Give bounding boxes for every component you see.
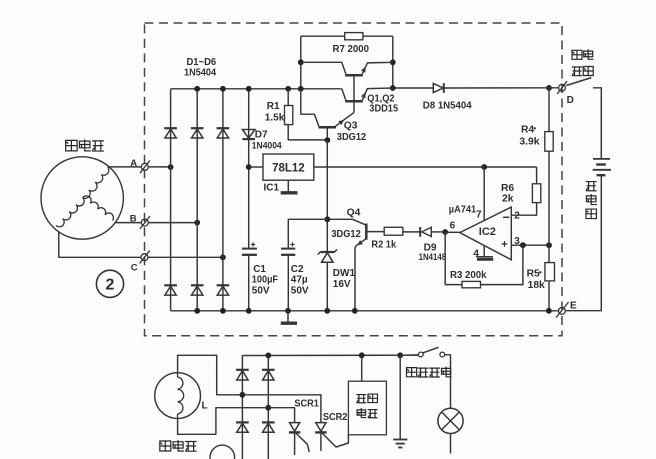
svg-text:IC2: IC2 bbox=[479, 226, 496, 238]
wire B to rectifier column 2 bbox=[148, 222, 197, 224]
lighting switch 照明开关 bbox=[418, 347, 444, 357]
junction col4 IC1 input bbox=[246, 164, 252, 170]
diode D9 1N4148 bbox=[420, 227, 445, 237]
SCR2 gate bbox=[323, 434, 349, 448]
svg-text:A: A bbox=[130, 158, 137, 169]
wire R6 top bbox=[536, 167, 538, 184]
wire R7 right vertical bbox=[392, 36, 394, 88]
junction Q2 collector bbox=[298, 86, 304, 92]
label µA741 bbox=[449, 204, 477, 215]
junction Q1 collector bbox=[298, 59, 304, 65]
svg-text:C1: C1 bbox=[253, 264, 266, 275]
connector terminal D bbox=[557, 81, 567, 94]
diode D5 (bottom row) bbox=[191, 285, 204, 295]
resistor R6 bbox=[532, 184, 540, 203]
svg-text:D8 1N5404: D8 1N5404 bbox=[423, 100, 472, 111]
label Q4 bbox=[347, 208, 361, 219]
label R7 2000 bbox=[333, 43, 370, 54]
svg-text:3DG12: 3DG12 bbox=[337, 132, 367, 144]
wire pin3 node to R5 bbox=[548, 245, 550, 262]
wire pin 4 ground stub bbox=[483, 245, 485, 256]
junction top rail bbox=[194, 86, 200, 92]
label D8 1N5404 bbox=[423, 100, 472, 111]
junction C2 bottom bbox=[285, 308, 291, 314]
junction lower rail ground bbox=[397, 352, 403, 358]
wire A to rectifier column 1 bbox=[148, 166, 170, 168]
label IC1 bbox=[264, 182, 280, 193]
wire to chassis ground bbox=[399, 355, 401, 439]
chassis ground symbol bbox=[393, 440, 407, 448]
diode D7 1N4004 bbox=[242, 130, 255, 140]
wire R7 top rail bbox=[301, 35, 393, 37]
label 电源开关 (power switch) bbox=[572, 49, 594, 75]
svg-text:2k: 2k bbox=[502, 194, 514, 205]
label R5 18k bbox=[527, 268, 545, 291]
wire R2 to D9 bbox=[403, 231, 420, 233]
label C2 47u 50V bbox=[291, 264, 309, 297]
label D7 bbox=[255, 130, 268, 141]
svg-text:3DG12: 3DG12 bbox=[331, 228, 361, 240]
battery 蓄电池 bbox=[593, 159, 611, 175]
wire B' to SCR1 bbox=[268, 408, 294, 423]
label R6 2k bbox=[501, 183, 514, 204]
junction divider top bbox=[546, 85, 552, 91]
wire R5 bottom bbox=[548, 281, 550, 311]
svg-text:3.9k: 3.9k bbox=[519, 137, 539, 148]
wire node B bbox=[115, 222, 142, 224]
label 控制电路 (control circuit) bbox=[356, 394, 377, 418]
label R2 1k bbox=[371, 239, 396, 251]
label A bbox=[130, 158, 137, 169]
diode lower bottom row B' bbox=[262, 422, 275, 432]
label 1N4004 bbox=[252, 140, 282, 151]
svg-text:7: 7 bbox=[476, 210, 482, 221]
label C1 100uF 50V bbox=[252, 264, 278, 297]
svg-text:50V: 50V bbox=[252, 285, 270, 296]
wire node A bbox=[109, 166, 142, 168]
wire R1 bottom to Q3 base node bbox=[288, 125, 327, 140]
diode D4 (bottom row) bbox=[164, 285, 177, 295]
label C bbox=[131, 262, 138, 273]
diode D8 1N5404 bbox=[433, 83, 444, 93]
svg-text:IC1: IC1 bbox=[264, 182, 280, 193]
diode lower bottom row A' bbox=[236, 422, 249, 432]
capacitor C1 bbox=[242, 242, 257, 255]
svg-text:R2 1k: R2 1k bbox=[371, 239, 396, 251]
cropped circle bottom bbox=[210, 445, 235, 459]
magneto M1 circle bbox=[41, 157, 123, 239]
label B bbox=[130, 214, 137, 225]
junction pin3-divider bbox=[546, 242, 552, 248]
diode D2 (top row) bbox=[191, 128, 204, 138]
minus sign pin2 bbox=[503, 216, 509, 218]
transistor Q4 emitter bbox=[355, 239, 366, 311]
connector terminal A bbox=[140, 160, 150, 173]
label DW1 16V bbox=[333, 268, 356, 290]
label pin 3 bbox=[514, 236, 520, 247]
wire node C bbox=[59, 232, 141, 257]
wire below lamp bbox=[450, 434, 452, 454]
svg-text:L: L bbox=[202, 400, 208, 411]
junction bottom rail bbox=[220, 308, 226, 314]
wire R1 top lead bbox=[287, 89, 289, 106]
diode lower top row B' bbox=[262, 370, 275, 380]
label 3DD15 bbox=[369, 103, 398, 115]
wire lower column A' bbox=[241, 356, 243, 459]
junction pin3-R3 bbox=[520, 242, 526, 248]
label R1 1.5k bbox=[265, 101, 285, 124]
wire pin 7 supply bbox=[483, 167, 485, 220]
svg-text:100µF: 100µF bbox=[252, 274, 278, 285]
regulator IC1 78L12 box bbox=[263, 154, 314, 180]
zener DW1 bbox=[318, 250, 337, 263]
label pin 2 bbox=[514, 210, 520, 221]
pin 4 ground bbox=[476, 257, 493, 260]
resistor R7 bbox=[345, 33, 363, 40]
diode D6 (bottom row) bbox=[217, 285, 230, 295]
svg-text:SCR1: SCR1 bbox=[294, 398, 319, 409]
SCR1 gate bbox=[296, 434, 309, 453]
wire rectifier column 3 bbox=[222, 89, 224, 311]
label D bbox=[567, 95, 574, 106]
wire 12V rail bbox=[314, 166, 537, 168]
thyristor SCR2 bbox=[315, 423, 326, 451]
op-amp IC2 µA741 triangle bbox=[460, 207, 512, 260]
label L bbox=[202, 400, 208, 411]
wire R4 to pin3 node bbox=[548, 151, 550, 245]
wire zener column upper bbox=[326, 140, 328, 252]
svg-text:3DD15: 3DD15 bbox=[369, 103, 398, 115]
wire column 4 upper bbox=[248, 89, 250, 249]
svg-text:D: D bbox=[567, 95, 574, 106]
junction op-amp output node bbox=[442, 229, 448, 235]
svg-text:78L12: 78L12 bbox=[272, 162, 305, 174]
svg-text:6: 6 bbox=[450, 221, 456, 232]
wire Q3 collector bbox=[301, 89, 319, 126]
label pin 6 bbox=[450, 221, 456, 232]
junction lower rail B' bbox=[265, 353, 271, 359]
ground bottom rail bbox=[281, 311, 297, 323]
svg-text:C: C bbox=[131, 262, 138, 273]
junction A-col1 bbox=[168, 164, 174, 170]
label 1N4148 bbox=[419, 251, 447, 262]
junction Q1 emitter bbox=[390, 59, 396, 65]
svg-text:1N4148: 1N4148 bbox=[419, 251, 447, 262]
label Q3 bbox=[344, 121, 358, 132]
label D1~D6 bbox=[187, 57, 217, 69]
wire switch to battery bbox=[593, 88, 601, 158]
thyristor SCR1 bbox=[289, 423, 300, 455]
transistor Q1 bbox=[301, 62, 393, 75]
junction Q4 emitter bottom bbox=[352, 308, 358, 314]
svg-text:1N4004: 1N4004 bbox=[252, 140, 282, 151]
dashed regulator enclosure box bbox=[145, 23, 563, 336]
svg-text:B: B bbox=[130, 214, 137, 225]
svg-text:R6: R6 bbox=[501, 183, 514, 194]
junction B' mid node bbox=[265, 405, 271, 411]
junction C-col3 bbox=[220, 254, 226, 260]
transistor Q2 bbox=[342, 88, 393, 101]
label pin 4 bbox=[473, 248, 479, 259]
svg-text:50V: 50V bbox=[291, 285, 309, 296]
label 78L12 bbox=[272, 162, 305, 174]
magneto M2 circle bbox=[155, 373, 201, 419]
wire pin 2 to R6 bbox=[511, 203, 536, 216]
label SCR1 bbox=[294, 398, 319, 409]
connector terminal C bbox=[140, 251, 150, 264]
wire column 4 lower bbox=[248, 255, 250, 311]
wire lower column B' bbox=[267, 356, 269, 459]
wire M2 bottom path bbox=[178, 408, 269, 435]
junction R1 top bbox=[285, 86, 291, 92]
junction zener bottom bbox=[324, 308, 330, 314]
label pin 7 bbox=[476, 210, 482, 221]
wire rail to lighting switch bbox=[400, 354, 418, 357]
svg-text:1.5k: 1.5k bbox=[265, 113, 285, 124]
label 照明开关 (lighting switch) bbox=[407, 367, 452, 377]
label 1N5404 bbox=[184, 67, 217, 79]
connector terminal B bbox=[140, 216, 150, 229]
wire Q3 base bbox=[326, 127, 328, 140]
wire C2 top lead bbox=[288, 219, 327, 248]
wire D8 to switch bbox=[444, 87, 559, 89]
wire output to op-amp bbox=[445, 231, 460, 233]
junction B-col2 bbox=[194, 220, 200, 226]
junction Q3 base node bbox=[325, 137, 331, 143]
magneto M2 coil L bbox=[178, 373, 184, 419]
label R4 3.9k bbox=[519, 124, 539, 148]
lower top rail bbox=[242, 355, 418, 356]
svg-text:2: 2 bbox=[106, 276, 115, 293]
wire zener column lower bbox=[326, 262, 328, 311]
label E bbox=[570, 301, 577, 312]
label Q1,Q2 bbox=[367, 93, 395, 105]
IC1 ground bbox=[281, 180, 298, 193]
wire Q4 collector bbox=[327, 219, 365, 225]
wire Q emitters to D8 bbox=[393, 87, 434, 89]
wire Q1,Q2 common base bbox=[353, 75, 355, 112]
svg-text:1N5404: 1N5404 bbox=[184, 67, 217, 79]
resistor R2 bbox=[384, 227, 403, 235]
diode lower top row A' bbox=[236, 370, 249, 380]
wire switch to lamp bbox=[445, 355, 451, 409]
resistor R1 bbox=[285, 106, 293, 125]
wire IC1 input bbox=[249, 166, 263, 168]
label 磁电机 (magneto) bbox=[66, 139, 104, 151]
wire A' to SCR2 bbox=[242, 395, 321, 423]
wire C2 bottom lead bbox=[287, 255, 289, 311]
svg-text:E: E bbox=[570, 301, 577, 312]
capacitor C2 bbox=[281, 242, 295, 255]
svg-text:Q3: Q3 bbox=[344, 121, 358, 132]
svg-text:16V: 16V bbox=[333, 279, 351, 290]
svg-text:•: • bbox=[539, 268, 542, 277]
transistor Q4 bar bbox=[365, 224, 368, 240]
svg-text:R7 2000: R7 2000 bbox=[333, 43, 370, 54]
resistor R5 bbox=[545, 263, 555, 281]
diode D1 (top row) bbox=[164, 128, 177, 138]
svg-text:47µ: 47µ bbox=[291, 275, 308, 286]
junction Q2 emitter bbox=[390, 85, 396, 91]
wire M2 top path bbox=[178, 355, 243, 395]
junction A' mid node bbox=[240, 392, 246, 398]
wire R3 left leg bbox=[445, 232, 462, 285]
label 3DG12 (Q4) bbox=[331, 228, 361, 240]
svg-text:µA741: µA741 bbox=[449, 204, 477, 215]
label 蓄电池 (battery) bbox=[586, 182, 597, 219]
svg-text:R1: R1 bbox=[267, 101, 280, 112]
svg-text:Q4: Q4 bbox=[347, 208, 361, 219]
junction lower rail control box bbox=[359, 352, 365, 358]
magneto M1 three-phase Y winding bbox=[56, 167, 113, 227]
junction zener node bbox=[325, 216, 331, 222]
bottom ground rail bbox=[171, 310, 559, 312]
wire control box stub bbox=[361, 355, 363, 381]
svg-text:D7: D7 bbox=[255, 130, 268, 141]
resistor R3 bbox=[462, 281, 481, 287]
wire R7 left vertical bbox=[300, 36, 302, 89]
junction col4 top bbox=[246, 86, 252, 92]
wire C to rectifier column 3 bbox=[148, 256, 223, 258]
transistor Q3 bbox=[318, 112, 354, 127]
junction 12V rail pin7 bbox=[481, 164, 487, 170]
wire R3 right leg bbox=[481, 245, 523, 284]
wire battery negative to E bbox=[565, 175, 601, 311]
wire pin 3 bbox=[511, 244, 549, 246]
power switch lever bbox=[566, 78, 591, 86]
diode D3 (top row) bbox=[217, 128, 230, 138]
wire divider upper bbox=[548, 88, 550, 132]
label SCR2 bbox=[323, 412, 348, 423]
svg-text:•: • bbox=[533, 124, 536, 133]
svg-text:R3 200k: R3 200k bbox=[450, 269, 487, 280]
figure number circled 2 bbox=[96, 270, 123, 297]
lamp symbol bbox=[438, 408, 463, 433]
svg-text:DW1: DW1 bbox=[333, 268, 356, 279]
wire rectifier column 1 bbox=[170, 89, 172, 311]
svg-text:SCR2: SCR2 bbox=[323, 412, 348, 423]
control circuit box 控制电路 bbox=[348, 381, 386, 435]
label R3 200k bbox=[450, 269, 487, 280]
label D9 bbox=[424, 243, 437, 254]
svg-text:C2: C2 bbox=[291, 264, 304, 275]
svg-text:18k: 18k bbox=[528, 280, 545, 291]
label IC2 bbox=[479, 226, 496, 238]
resistor R4 bbox=[545, 132, 553, 152]
junction R5 bottom bbox=[546, 308, 552, 314]
junction bottom rail bbox=[194, 308, 200, 314]
label 3DG12 (Q3) bbox=[337, 132, 367, 144]
junction top rail bbox=[220, 86, 226, 92]
junction col4 bottom bbox=[246, 308, 252, 314]
wire rectifier column 2 bbox=[196, 89, 198, 311]
wire Q4 base bbox=[367, 231, 384, 233]
connector terminal E bbox=[556, 302, 569, 318]
top supply rail bbox=[171, 88, 342, 90]
label 磁电机 (magneto 2) bbox=[160, 440, 197, 451]
plus sign pin3 bbox=[502, 241, 508, 247]
